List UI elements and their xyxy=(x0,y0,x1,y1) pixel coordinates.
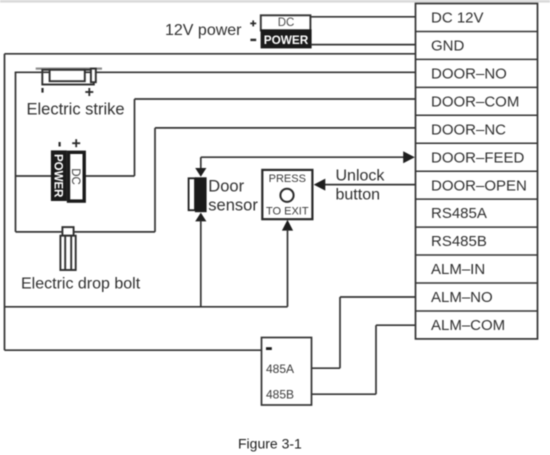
DC power supply U2 minus tick xyxy=(59,142,61,147)
wire DOOR-FEED horizontal xyxy=(201,156,405,158)
wire power minus to GND terminal xyxy=(311,44,416,46)
power supply U1 DC box xyxy=(261,15,311,30)
plus mark of 12V power xyxy=(250,20,256,26)
wire door sensor top vertical xyxy=(200,157,202,170)
terminal block outline xyxy=(416,4,538,339)
wire to ALM-NO terminal xyxy=(340,296,416,298)
wire 485B riser xyxy=(375,325,377,394)
arrowhead into exit button right (unlock) xyxy=(314,179,326,191)
electric drop bolt body xyxy=(60,236,75,270)
svg-text:ALM–NO: ALM–NO xyxy=(431,289,493,306)
top edge shading xyxy=(0,0,550,3)
wire 485B pin to riser xyxy=(312,393,377,395)
svg-text:button: button xyxy=(336,186,380,203)
svg-text:DOOR–FEED: DOOR–FEED xyxy=(431,149,525,166)
wire drop bolt horizontal xyxy=(16,231,156,233)
wire DOOR-NC horizontal xyxy=(155,127,416,129)
electric strike plus mark xyxy=(85,88,93,96)
exit button box xyxy=(262,170,312,219)
wire to 485 box minus xyxy=(5,349,264,351)
svg-text:TO EXIT: TO EXIT xyxy=(266,206,309,218)
svg-text:485A: 485A xyxy=(266,362,294,376)
svg-text:RS485B: RS485B xyxy=(431,233,487,250)
DC power supply U2 POWER part xyxy=(51,150,67,201)
wire DC power left xyxy=(16,175,53,177)
exit button circle xyxy=(280,189,293,202)
power supply U1 POWER box xyxy=(261,29,312,48)
minus mark of 12V power xyxy=(250,39,256,41)
svg-text:PRESS: PRESS xyxy=(269,173,306,185)
electric drop bolt cap xyxy=(62,227,73,236)
wire DC power right to riser xyxy=(85,175,135,177)
svg-text:sensor: sensor xyxy=(208,197,258,215)
wire strike branch vertical xyxy=(15,72,17,232)
svg-text:12V power: 12V power xyxy=(165,22,242,39)
485 box minus mark xyxy=(266,347,272,350)
svg-text:Unlock: Unlock xyxy=(336,168,386,185)
DC power supply U2 plus mark xyxy=(72,139,80,147)
svg-text:RS485A: RS485A xyxy=(431,205,487,222)
arrowhead down into door sensor xyxy=(195,168,206,177)
svg-text:ALM–IN: ALM–IN xyxy=(431,261,485,278)
svg-text:Door: Door xyxy=(208,178,244,196)
DC power supply U2 DC part xyxy=(69,152,85,201)
terminal row dividers xyxy=(416,31,538,311)
wire to DOOR-COM terminal xyxy=(135,98,416,100)
wire power plus to DC 12V terminal xyxy=(310,16,416,18)
svg-text:ALM–COM: ALM–COM xyxy=(431,317,505,334)
electric strike inner plate xyxy=(50,70,85,81)
wire riser to DOOR-COM xyxy=(134,99,136,176)
wire 485A riser xyxy=(339,297,341,368)
wire common bottom return xyxy=(5,306,288,308)
wire GND long to left side xyxy=(5,53,416,55)
svg-text:POWER: POWER xyxy=(52,154,64,198)
arrowhead up into door sensor bottom xyxy=(195,213,206,222)
wire DOOR-NC riser xyxy=(154,128,156,232)
door sensor body xyxy=(189,177,207,212)
svg-text:Electric strike: Electric strike xyxy=(27,101,125,119)
wire to ALM-COM terminal xyxy=(376,324,416,326)
svg-text:DOOR–NC: DOOR–NC xyxy=(431,121,506,138)
wire strike to DOOR-NO terminal xyxy=(15,71,416,73)
485 converter box xyxy=(262,338,312,406)
svg-text:GND: GND xyxy=(431,38,465,55)
svg-text:DOOR–OPEN: DOOR–OPEN xyxy=(431,177,527,194)
electric strike latch xyxy=(91,69,96,83)
svg-text:Figure 3-1: Figure 3-1 xyxy=(238,436,302,452)
arrowhead into DOOR-FEED terminal xyxy=(403,151,415,163)
svg-text:POWER: POWER xyxy=(264,33,309,47)
svg-text:DC 12V: DC 12V xyxy=(431,10,484,27)
svg-text:DC: DC xyxy=(69,168,81,185)
wire door sensor bottom vertical xyxy=(200,221,202,307)
wire DOOR-OPEN horizontal xyxy=(324,184,416,186)
svg-text:Electric drop bolt: Electric drop bolt xyxy=(21,276,141,293)
wire exit button bottom vertical xyxy=(287,230,289,307)
electric strike minus tick xyxy=(41,88,43,93)
wire 485A pin to riser xyxy=(312,367,341,369)
svg-text:485B: 485B xyxy=(266,388,294,402)
svg-text:DOOR–NO: DOOR–NO xyxy=(431,66,507,83)
svg-text:DC: DC xyxy=(278,17,295,29)
wire left outer vertical xyxy=(4,54,6,350)
svg-text:DOOR–COM: DOOR–COM xyxy=(431,93,519,110)
electric strike mounting bar xyxy=(36,67,102,69)
electric strike outer bracket xyxy=(42,70,94,85)
arrowhead up into exit button bottom xyxy=(282,220,293,231)
